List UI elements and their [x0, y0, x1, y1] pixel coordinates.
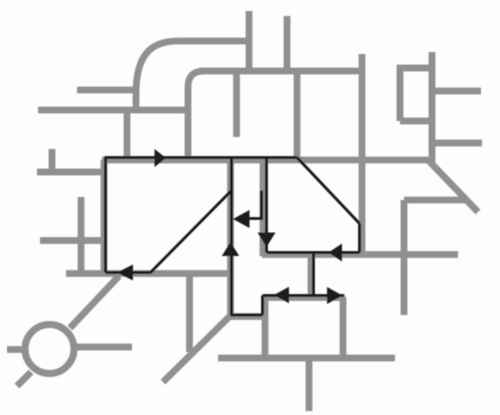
route vertical x266	[265, 158, 268, 253]
route diagonal up	[150, 191, 232, 274]
route top horizontal	[105, 156, 298, 159]
roundabout spoke bottom-left	[17, 372, 31, 386]
street x297	[294, 71, 301, 160]
street x230 under route	[227, 160, 234, 316]
street y90 stub	[77, 87, 136, 94]
street x81	[78, 197, 85, 273]
arrow right y295	[327, 287, 343, 304]
arrow left y272	[117, 265, 133, 281]
street y254	[262, 251, 458, 258]
street y240	[40, 237, 103, 244]
street y172	[37, 169, 104, 176]
curved road top-left	[136, 41, 249, 113]
street x52 stub	[49, 149, 56, 172]
stub y91	[432, 88, 481, 95]
diagonal to roundabout	[70, 276, 119, 328]
street x189	[186, 273, 193, 352]
arrow up x231	[222, 242, 239, 256]
street x249	[246, 11, 253, 71]
arrow down x266	[258, 233, 276, 248]
arrow right on top route	[155, 149, 167, 167]
street x265	[262, 297, 269, 358]
roundabout spoke right	[74, 344, 132, 351]
roundabout circle	[25, 325, 74, 374]
route vertical x313	[312, 253, 315, 296]
route diagonal down right	[297, 158, 360, 224]
main street y160	[102, 157, 429, 164]
street y316 under route	[230, 313, 263, 320]
diagonal street top-right	[429, 161, 478, 212]
street x343	[340, 297, 347, 358]
route vertical x262	[261, 296, 264, 316]
block rectangle top-right	[400, 52, 432, 163]
street x104 under route	[101, 160, 108, 273]
route horizontal y252	[267, 251, 360, 254]
route center vertical x231	[230, 158, 233, 315]
diagonal street bottom-center	[163, 316, 230, 382]
arrow left connector	[233, 210, 250, 228]
street x236 dead end	[233, 71, 240, 137]
street x404	[401, 200, 408, 315]
street x287	[284, 16, 291, 71]
street y273	[66, 270, 231, 277]
route (black)	[105, 158, 360, 316]
route bottom-left horizontal	[106, 271, 151, 274]
street x309	[306, 358, 313, 411]
route left vertical	[104, 158, 107, 273]
stub y143	[432, 140, 482, 147]
route horizontal y315	[231, 314, 263, 317]
street x362	[359, 54, 366, 255]
street x127	[124, 110, 131, 160]
arrow left y295	[274, 287, 289, 303]
roundabout spoke left	[7, 346, 27, 353]
route horizontal y295	[263, 294, 345, 297]
curved road 2	[188, 71, 204, 159]
route right vertical	[358, 224, 361, 253]
street y297	[262, 294, 345, 301]
street x263	[260, 160, 267, 256]
street y358	[218, 355, 395, 362]
street y71	[201, 68, 363, 75]
arrowheads	[117, 149, 343, 304]
route connector L	[240, 191, 262, 219]
street x311	[308, 254, 315, 297]
street y200	[404, 197, 467, 204]
street y110	[38, 107, 190, 114]
arrow left y252	[329, 244, 343, 262]
